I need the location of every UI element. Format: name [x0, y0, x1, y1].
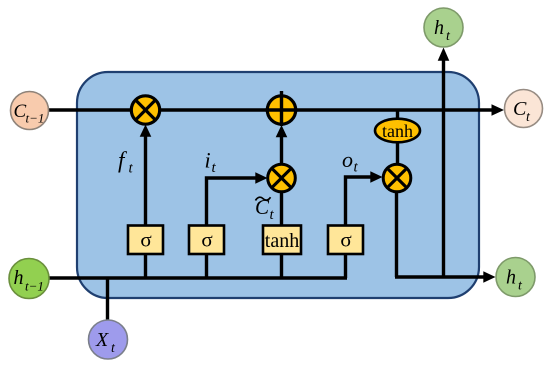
node X_t	[89, 320, 128, 359]
wire output line to h_t right	[395, 275, 484, 278]
node h_t top	[424, 8, 463, 47]
svg-text:h: h	[14, 267, 24, 289]
svg-text:t−1: t−1	[25, 279, 44, 294]
wire h_{t-1} line horizontal	[48, 276, 347, 279]
wire sigma3 to bottom line	[344, 254, 347, 278]
svg-text:tanh: tanh	[265, 230, 299, 252]
tanh ellipse	[375, 119, 420, 143]
node C_{t-1}	[11, 92, 49, 130]
arrow into plus gate	[276, 125, 288, 137]
wire multiply gate 3 down to output line	[395, 192, 398, 277]
wire tanh box up to multiply gate 2	[280, 192, 283, 226]
arrow into multiply gate 2	[255, 172, 267, 184]
wire branch up to h_t top	[442, 60, 445, 279]
wire sigma2 to bottom line	[205, 254, 208, 278]
sigma box 1	[128, 226, 163, 255]
svg-text:h: h	[434, 17, 444, 39]
LSTM cell body	[77, 72, 479, 298]
svg-text:X: X	[95, 329, 109, 351]
wire C line down into tanh ellipse	[396, 110, 399, 119]
label i_t	[205, 148, 217, 177]
node C_t	[505, 90, 543, 128]
svg-text:σ: σ	[140, 228, 151, 252]
wire multiply gate 2 up to plus gate	[280, 137, 283, 164]
multiply gate 2 (input)	[268, 164, 296, 192]
arrow into node C_t	[492, 104, 505, 116]
tanh box	[263, 226, 301, 255]
label C~_t	[255, 195, 275, 223]
wire C line horizontal	[48, 108, 493, 111]
svg-text:σ: σ	[340, 228, 351, 252]
sigma box 3	[328, 226, 363, 255]
arrow into multiply gate 1	[140, 125, 152, 137]
svg-text:h: h	[506, 267, 516, 289]
svg-text:o: o	[342, 147, 353, 172]
wire X_t vertical	[106, 278, 109, 321]
wire o_t: sigma3 up and right to multiply gate 3	[346, 177, 374, 226]
svg-text:σ: σ	[201, 228, 212, 252]
arrow into node h_t top	[438, 48, 450, 61]
plus gate	[266, 91, 298, 126]
label f_t	[118, 148, 134, 177]
node h_t bottom right	[496, 258, 535, 297]
node h_{t-1}	[9, 259, 49, 299]
svg-text:t−1: t−1	[26, 111, 45, 126]
wire f_t: sigma1 up to multiply gate 1	[144, 136, 147, 226]
wire i_t: sigma2 up and right to multiply gate 2	[207, 178, 259, 226]
svg-text:C: C	[513, 98, 527, 120]
label o_t	[342, 147, 359, 176]
sigma box 2	[189, 226, 224, 255]
svg-text:i: i	[205, 148, 211, 173]
multiply gate 1 (forget)	[131, 96, 159, 124]
wire sigma1 to bottom line	[144, 254, 147, 278]
multiply gate 3 (output)	[383, 164, 411, 192]
wire tanh ellipse to multiply gate 3	[396, 140, 399, 165]
arrow into node h_t bottom right	[483, 271, 495, 283]
svg-text:tanh: tanh	[382, 121, 413, 141]
wire tanh box to bottom line	[280, 254, 283, 278]
arrow into multiply gate 3	[370, 171, 382, 183]
